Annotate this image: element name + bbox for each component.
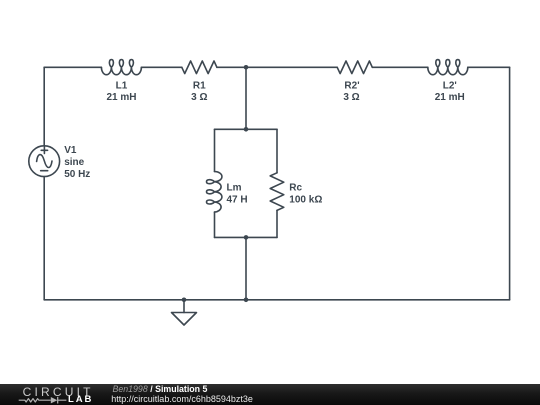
resistor R2' — [337, 61, 372, 74]
wire bottom horizontal — [44, 299, 509, 301]
svg-text:50 Hz: 50 Hz — [64, 169, 90, 180]
wire box bottom to ground rail — [245, 237, 247, 299]
wire right vertical — [509, 67, 511, 299]
wire parallel box top — [215, 128, 278, 130]
wire left vertical upper — [43, 67, 45, 146]
node E — [182, 298, 187, 303]
R1 value label — [191, 81, 207, 104]
wire L1 to R1 — [141, 66, 181, 68]
wire R2' to L2' — [372, 66, 428, 68]
svg-text:Rc: Rc — [289, 182, 302, 193]
wire left vertical lower — [43, 177, 45, 300]
svg-text:L1: L1 — [116, 81, 128, 92]
wire top-left horizontal — [44, 66, 101, 68]
voltage source V1 — [29, 146, 60, 177]
CircuitLab logo LAB text — [68, 397, 93, 404]
svg-text:R1: R1 — [193, 81, 206, 92]
L2' value label — [435, 81, 465, 104]
svg-text:3 Ω: 3 Ω — [343, 92, 359, 103]
CircuitLab logo wordmark — [23, 388, 94, 397]
footer credits line 1 — [113, 386, 208, 393]
resistor R1 — [182, 61, 217, 74]
R2' value label — [343, 81, 359, 104]
Rc value label — [289, 182, 322, 205]
node B — [244, 127, 249, 132]
svg-text:sine: sine — [64, 157, 84, 168]
inductor Lm — [207, 172, 222, 213]
wire Rc branch upper — [276, 129, 278, 173]
svg-text:100 kΩ: 100 kΩ — [289, 194, 322, 205]
svg-text:Lm: Lm — [227, 182, 242, 193]
wire R1 to R2' — [217, 66, 337, 68]
footer credits line 2 — [111, 396, 253, 403]
svg-text:R2': R2' — [344, 81, 359, 92]
Lm value label — [227, 182, 248, 205]
svg-text:V1: V1 — [64, 145, 77, 156]
CircuitLab logo schematic line — [0, 384, 110, 405]
wire Lm branch lower — [214, 212, 216, 237]
V1 value label — [64, 145, 90, 180]
svg-text:L2': L2' — [443, 81, 457, 92]
inductor L2' — [428, 60, 468, 75]
wire junction A to parallel box top — [245, 67, 247, 129]
inductor L1 — [101, 60, 141, 75]
wire Rc branch lower — [276, 210, 278, 237]
node C — [244, 235, 249, 240]
wire parallel box bottom — [215, 236, 278, 238]
wire Lm branch upper — [214, 129, 216, 171]
svg-text:21 mH: 21 mH — [106, 92, 136, 103]
node A — [244, 65, 249, 70]
wire top-right horizontal — [468, 66, 510, 68]
ground — [172, 300, 197, 325]
resistor Rc — [270, 173, 284, 211]
L1 value label — [106, 81, 136, 104]
footer bar — [0, 384, 540, 405]
svg-text:3 Ω: 3 Ω — [191, 92, 207, 103]
svg-text:21 mH: 21 mH — [435, 92, 465, 103]
node D — [244, 298, 249, 303]
svg-text:47 H: 47 H — [227, 194, 248, 205]
